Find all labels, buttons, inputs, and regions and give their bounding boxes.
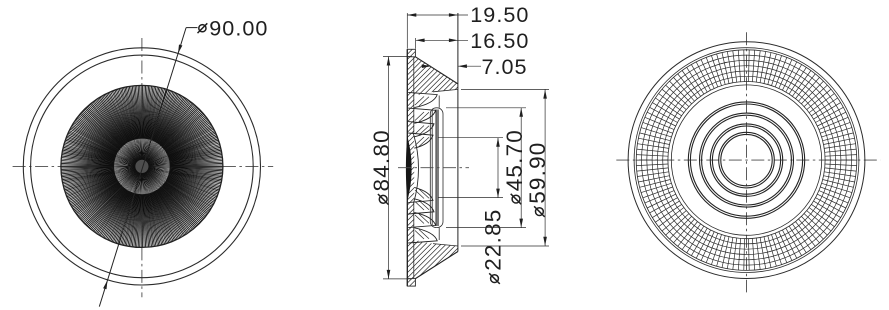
section cone slope bottom — [415, 252, 458, 279]
dimension d84.80 — [383, 57, 412, 279]
dimension 7.05 — [422, 64, 482, 68]
section left edge (flange face) — [406, 49, 408, 286]
section wall dark lens — [406, 136, 412, 202]
svg-text:59.90: 59.90 — [525, 141, 550, 203]
extension line 16.50 left — [415, 38, 417, 49]
extension line 19.50 left — [406, 13, 408, 49]
dimension text d84.80 — [369, 129, 394, 204]
front view outer circle — [23, 48, 260, 285]
section gasket bottom — [407, 279, 415, 287]
back view centerline vertical — [746, 32, 748, 292]
back view mesh ring radial lines — [636, 50, 857, 271]
dimension d22.85 — [438, 138, 503, 198]
dimension d59.90 — [461, 89, 549, 246]
front view inner rim circle — [31, 55, 254, 278]
dimension 19.50 — [407, 13, 468, 17]
dimension leader line d90 — [99, 28, 197, 307]
dimension text 16.50 — [470, 28, 529, 53]
section diaphragm corrugations top — [408, 92, 437, 148]
svg-text:45.70: 45.70 — [502, 129, 527, 191]
section cone inner boundary bottom — [433, 244, 458, 246]
section gasket top — [407, 49, 415, 57]
back view rim circles — [634, 48, 859, 273]
section right face / extension line — [457, 13, 459, 252]
front view centerline horizontal — [13, 165, 274, 167]
dimension d45.70 — [446, 108, 526, 228]
section frame barrel curve — [414, 134, 419, 204]
section cone slope top — [415, 57, 458, 84]
dimension 16.50 — [416, 39, 468, 43]
speaker cone radial texture — [61, 86, 222, 247]
section hatch slivers between corrugations — [415, 97, 429, 240]
section voice coil pair — [436, 110, 438, 227]
back view inner circles — [688, 102, 804, 218]
dimension text d90.00 — [198, 15, 269, 40]
back view mesh ring circles — [642, 55, 852, 265]
dimension text 7.05 — [482, 54, 528, 79]
svg-text:22.85: 22.85 — [480, 208, 505, 270]
section cone inner boundary top — [433, 89, 458, 91]
dimension text d59.90 — [525, 141, 550, 216]
svg-text:7.05: 7.05 — [482, 54, 528, 79]
front view cone edge circle — [61, 85, 223, 247]
dimension text d45.70 — [502, 129, 527, 204]
section magnet inner wall — [431, 111, 433, 226]
svg-text:19.50: 19.50 — [470, 2, 529, 27]
svg-text:16.50: 16.50 — [470, 28, 529, 53]
section diaphragm corrugations bottom — [408, 187, 437, 243]
svg-text:90.00: 90.00 — [209, 15, 268, 40]
section hatch — [26, 40, 889, 290]
back view outer circle — [628, 42, 865, 279]
section coil former stubs — [438, 96, 440, 241]
dimension text 19.50 — [470, 2, 529, 27]
dimension text d22.85 — [480, 208, 505, 283]
cone centre hub — [135, 160, 148, 173]
svg-text:84.80: 84.80 — [369, 129, 394, 191]
front view centerline vertical — [141, 38, 143, 297]
back view centerline horizontal — [616, 159, 880, 161]
section magnet outline — [430, 108, 443, 228]
section axis centerline — [398, 167, 469, 169]
section frame inner wall — [413, 57, 415, 278]
front view dome circle — [114, 138, 171, 195]
